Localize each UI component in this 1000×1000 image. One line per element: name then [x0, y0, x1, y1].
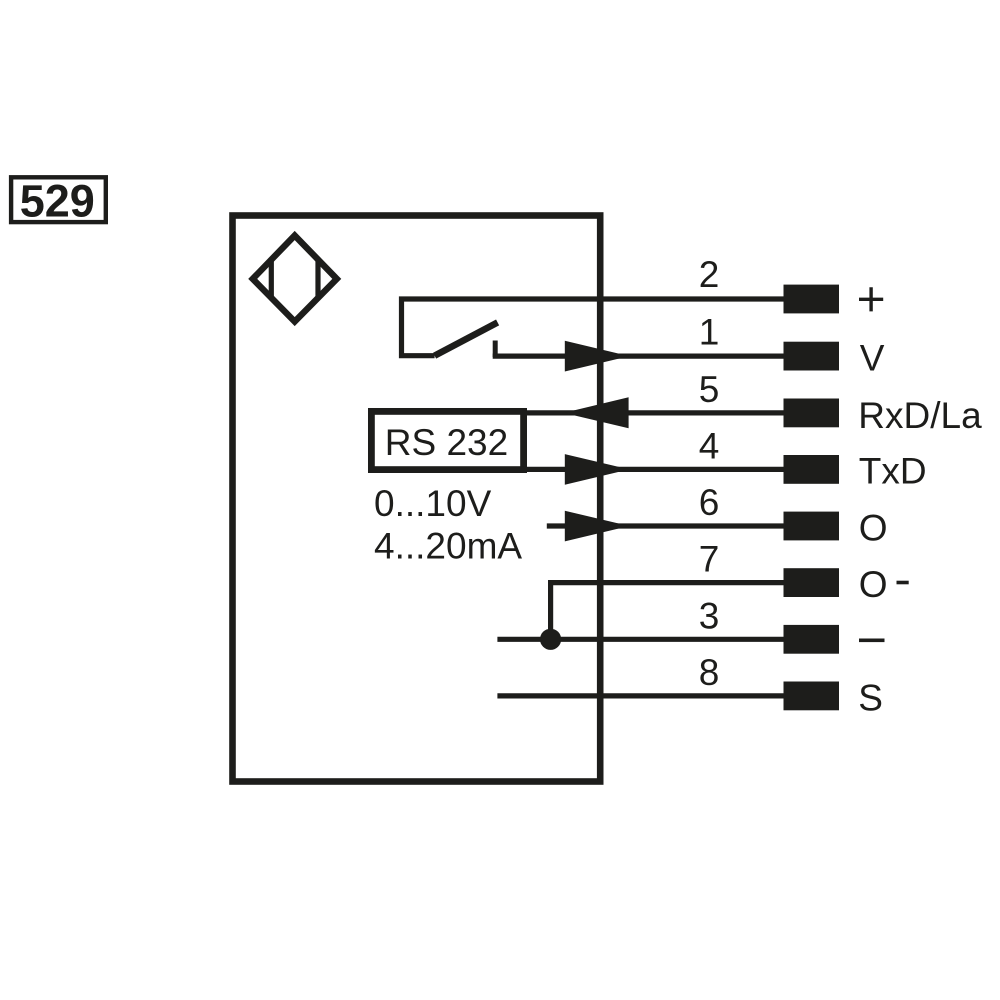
label O- dash — [897, 581, 909, 585]
wire pin 4 (TxD) — [522, 467, 784, 472]
svg-text:RS 232: RS 232 — [385, 422, 508, 463]
svg-text:0...10V: 0...10V — [374, 483, 492, 524]
wire pin 5 (RxD/La) — [522, 410, 784, 415]
svg-text:TxD: TxD — [859, 451, 927, 492]
terminal pin 4 — [784, 455, 840, 484]
svg-text:4...20mA: 4...20mA — [374, 526, 522, 567]
svg-text:4: 4 — [699, 426, 720, 467]
wire pin 6 (O) — [547, 523, 784, 528]
svg-text:2: 2 — [699, 254, 720, 295]
sensor body rectangle — [233, 216, 601, 782]
arrow out pin 6 — [565, 511, 629, 542]
label minus (pin 3) — [859, 639, 885, 643]
switch fixed contact — [493, 341, 498, 358]
sensor symbol outer diamond — [253, 236, 337, 322]
sensor symbol left chord — [269, 260, 274, 298]
wire pin 7 (O-) with drop to minus rail — [551, 583, 784, 640]
RS 232 box — [371, 411, 523, 469]
terminal pin 5 — [784, 399, 840, 428]
svg-text:V: V — [860, 337, 885, 378]
svg-text:8: 8 — [699, 652, 720, 693]
terminal pin 2 — [784, 285, 840, 314]
wire pin 8 (S) — [497, 693, 783, 698]
figure number box 529 — [11, 175, 106, 226]
sensor symbol right chord — [315, 260, 320, 298]
svg-text:O: O — [859, 564, 888, 605]
svg-text:3: 3 — [699, 595, 720, 636]
terminal pin 3 — [784, 625, 840, 654]
svg-text:O: O — [859, 507, 888, 548]
svg-text:1: 1 — [699, 312, 720, 353]
arrow out pin 1 — [565, 341, 629, 372]
svg-text:6: 6 — [699, 482, 720, 523]
wire pin 2 (+) from switch up and across — [402, 299, 784, 356]
arrow in pin 5 — [564, 397, 629, 428]
wire pin 1 (V) — [493, 354, 784, 359]
svg-text:529: 529 — [20, 175, 95, 226]
terminal pin 6 — [784, 512, 840, 541]
arrow out pin 4 — [565, 454, 629, 485]
terminal pin 8 — [784, 682, 840, 711]
switch blade — [435, 322, 498, 355]
svg-text:7: 7 — [699, 539, 720, 580]
terminal pin 7 — [784, 568, 840, 597]
svg-text:5: 5 — [699, 369, 720, 410]
svg-text:S: S — [858, 677, 883, 718]
label + (plus sign, pin 2) — [859, 287, 883, 311]
svg-text:RxD/La: RxD/La — [858, 395, 982, 436]
terminal pin 1 — [784, 342, 840, 371]
wire pin 3 (-) — [497, 637, 783, 642]
junction dot — [540, 629, 561, 650]
